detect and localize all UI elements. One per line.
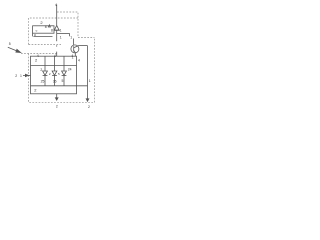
svg-text:1: 1 [20,74,22,78]
svg-text:25: 25 [41,80,45,84]
svg-text:1: 1 [89,79,91,83]
svg-text:2: 2 [56,104,58,108]
svg-text:36: 36 [53,79,57,83]
svg-text:8: 8 [45,25,47,29]
svg-text:4: 4 [78,58,80,62]
svg-text:2: 2 [88,105,90,109]
svg-text:4: 4 [55,3,57,7]
svg-text:24: 24 [68,67,72,71]
svg-text:4: 4 [54,54,56,58]
svg-text:1: 1 [60,29,62,33]
svg-text:5: 5 [62,79,64,83]
svg-text:1: 1 [60,36,62,40]
svg-text:5: 5 [9,42,11,46]
svg-text:8: 8 [51,29,53,33]
svg-text:2: 2 [15,74,17,78]
svg-text:4: 4 [37,54,39,58]
svg-text:1: 1 [72,55,74,59]
svg-text:2: 2 [40,68,42,72]
svg-text:u: u [34,33,36,37]
svg-text:1: 1 [70,36,72,40]
